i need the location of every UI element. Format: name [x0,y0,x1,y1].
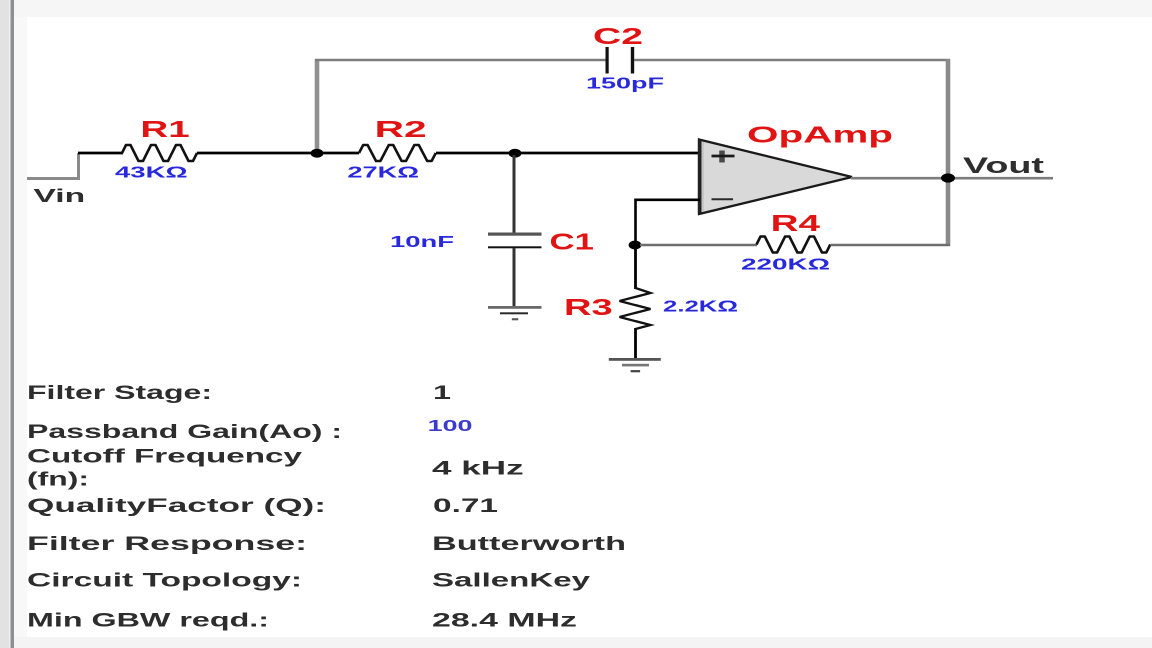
wire R2 to node B [436,152,700,155]
op-amp U1 plus pin mark [712,151,735,163]
op-amp U1 minus pin mark [712,198,734,200]
svg-text:28.4 MHz: 28.4 MHz [432,611,577,632]
op-amp U1 triangle [699,140,852,215]
svg-text:Passband Gain(Ao) :: Passband Gain(Ao) : [27,422,342,443]
svg-text:C1: C1 [550,229,594,255]
wire C2 branch top right (gray) [634,59,950,62]
op-amp U1 left inner light edge [702,142,704,211]
svg-text:Filter Stage:: Filter Stage: [27,383,212,404]
svg-text:OpAmp: OpAmp [747,122,893,148]
capacitor C2 right plate [631,47,634,74]
svg-text:SallenKey: SallenKey [432,570,591,591]
wire C1 to ground [513,248,516,306]
svg-text:Circuit Topology:: Circuit Topology: [27,570,302,591]
svg-text:QualityFactor (Q):: QualityFactor (Q): [27,496,326,517]
svg-text:4 kHz: 4 kHz [432,458,524,479]
svg-text:100: 100 [428,418,473,435]
svg-text:Vin: Vin [34,186,86,206]
svg-text:2.2KΩ: 2.2KΩ [663,299,738,316]
svg-text:Cutoff Frequency: Cutoff Frequency [27,446,303,467]
resistor R2 body [359,145,436,161]
svg-text:43KΩ: 43KΩ [115,164,188,181]
capacitor C1 top plate [488,233,542,236]
node Vout junction dot [941,173,955,182]
wire R1 to node A [197,152,359,155]
svg-text:0.71: 0.71 [433,496,499,517]
node A junction dot [311,149,324,158]
capacitor C2 left plate [606,47,609,74]
node B junction dot [509,149,522,158]
resistor R3 body [620,288,651,329]
wire node A up to C2 branch (gray vertical) [315,59,320,151]
svg-text:Butterworth: Butterworth [432,534,626,555]
op-amp U1 left edge thick [698,140,702,214]
wire op-amp minus input (black) [636,200,701,246]
ground under R3 [609,358,661,372]
capacitor C1 bottom plate [488,246,542,248]
svg-text:27KΩ: 27KΩ [347,164,419,181]
svg-text:(fn):: (fn): [27,470,89,491]
svg-text:10nF: 10nF [390,234,454,251]
svg-text:C2: C2 [593,23,643,49]
svg-text:1: 1 [433,383,452,404]
wire R3 to ground [634,328,637,358]
svg-text:Filter Response:: Filter Response: [27,534,307,555]
wire right vertical C2 to Vout to R4 (gray) [946,59,951,246]
svg-text:R3: R3 [564,294,613,320]
svg-text:R2: R2 [375,116,427,142]
svg-text:Min GBW reqd.:: Min GBW reqd.: [27,611,269,632]
wire node B down to C1 (dark) [513,155,516,233]
resistor R1 body [122,145,197,161]
wire node C to R4 (gray) [640,244,757,246]
wire C2 branch top left (gray) [315,59,606,62]
svg-text:220KΩ: 220KΩ [741,257,830,274]
svg-text:Vout: Vout [963,153,1045,178]
wire node C down to R3 [634,245,637,289]
node C junction dot [629,241,642,250]
resistor R4 body [757,237,831,253]
wire op-amp output (gray) [851,177,1053,180]
svg-text:R4: R4 [771,210,820,236]
svg-text:150pF: 150pF [586,76,664,93]
ground under C1 [488,306,542,320]
wire Vin to R1 (black) [78,152,123,155]
wire Vin input step (gray) [27,153,79,179]
wire R4 to Vout branch (gray) [831,244,951,246]
svg-text:R1: R1 [140,116,189,142]
